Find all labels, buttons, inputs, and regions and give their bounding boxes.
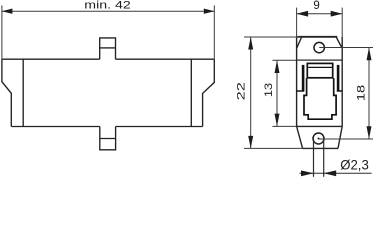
right extension line <box>213 5 215 59</box>
bottom extension line of 18 (from bottom hole center) <box>319 138 373 140</box>
arrow right of min.42 <box>204 9 215 14</box>
flange shoulder line <box>297 125 343 127</box>
bottom latch tab <box>100 127 116 150</box>
left wing bar <box>302 65 305 91</box>
dimension line 18 <box>368 48 370 140</box>
left wing cap <box>297 90 305 92</box>
dimension 13 <box>272 60 296 126</box>
svg-text:9: 9 <box>313 0 319 12</box>
arrow left of min.42 <box>2 9 13 14</box>
arrow top of 22 <box>248 37 253 50</box>
arrow left of 9 <box>297 11 309 17</box>
left extension line of hole diameter <box>313 139 315 177</box>
body bottom line right of tab <box>116 126 203 128</box>
right wing bar <box>337 65 340 91</box>
svg-text:Ø2,3: Ø2,3 <box>340 157 369 173</box>
bottom extension line of 13 <box>272 125 296 127</box>
svg-text:18: 18 <box>356 85 368 101</box>
arrow bottom of 18 <box>367 126 372 139</box>
dimension 9 <box>297 8 343 37</box>
dimension 22 <box>244 37 303 148</box>
top screw hole <box>314 42 324 52</box>
arrow right of hole diameter <box>324 170 337 176</box>
dimension line min.42 <box>2 10 214 12</box>
bottom latch tab divider <box>100 138 116 140</box>
arrow bottom of 13 <box>275 114 280 127</box>
body right edge <box>203 59 215 126</box>
dimension line 13 <box>276 60 278 126</box>
dimension 18 <box>319 48 373 140</box>
flange top-right chamfer <box>336 37 342 48</box>
bottom screw hole center dot <box>318 138 320 140</box>
flange bottom-right chamfer <box>338 126 342 148</box>
RJ45 jack opening <box>297 63 343 119</box>
body bottom line left of tab <box>11 126 100 128</box>
svg-text:13: 13 <box>263 83 275 97</box>
arrow bottom of 22 <box>248 136 253 149</box>
left extension line of 9 <box>296 8 298 37</box>
right extension line of hole diameter <box>323 139 325 177</box>
flange top edge <box>297 36 337 38</box>
jack body outline <box>304 78 336 119</box>
svg-text:22: 22 <box>236 82 248 100</box>
top latch tab divider <box>100 47 116 49</box>
bottom extension line of 22 <box>244 147 303 149</box>
top latch tab <box>100 38 116 59</box>
arrow right of 9 <box>331 11 343 17</box>
flange top-left chamfer <box>297 37 302 48</box>
dimension line 9 <box>297 13 343 15</box>
right wing cap <box>337 90 342 92</box>
top extension line of 13 <box>272 59 296 61</box>
dimension min. 42 <box>2 5 214 59</box>
right end cap divider <box>190 59 192 126</box>
flange bottom edge <box>303 147 338 149</box>
body top line left of tab <box>2 58 100 60</box>
left end cap divider <box>22 59 24 126</box>
latch window frame <box>307 63 332 77</box>
flange left side <box>296 37 298 126</box>
arrow top of 18 <box>367 48 372 61</box>
latch slot inner line <box>308 66 332 68</box>
flange outline <box>297 37 343 149</box>
jack section top line <box>297 59 343 61</box>
arrow left of hole diameter <box>301 170 314 176</box>
arrow top of 13 <box>275 60 280 73</box>
dimension line of hole diameter <box>300 172 372 174</box>
bottom screw hole <box>313 133 324 144</box>
flange right side <box>341 37 343 126</box>
dimension Ø 2,3 <box>300 139 372 177</box>
top extension line of 18 (from top hole center) <box>319 47 373 49</box>
body top line right of tab <box>116 58 215 60</box>
top extension line of 22 <box>244 36 301 38</box>
svg-text:min. 42: min. 42 <box>84 0 131 12</box>
right extension line of 9 <box>341 8 343 37</box>
body left edge <box>2 59 11 126</box>
left extension line <box>1 5 3 59</box>
dimension line 22 <box>250 37 252 148</box>
flange bottom-left chamfer <box>297 126 303 148</box>
